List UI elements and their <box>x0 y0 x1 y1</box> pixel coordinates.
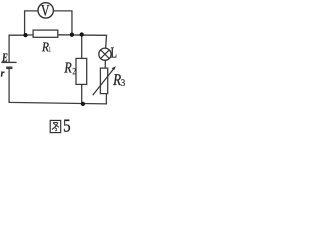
rheostat R3 label R <box>113 74 121 85</box>
lamp cross stroke 2 <box>101 50 110 59</box>
resistor R2 <box>76 58 87 84</box>
resistor R1 label subscript 1 <box>49 47 50 52</box>
junction node C <box>80 32 84 36</box>
battery label E <box>2 53 7 61</box>
wire R1 right along rail to top-right corner, down to lamp top <box>58 35 107 48</box>
battery label r <box>1 72 5 77</box>
rheostat R3 label subscript 3 <box>121 79 125 86</box>
wire battery bottom, bottom rail, up to R3 bottom <box>9 69 106 104</box>
voltmeter circle <box>38 3 53 18</box>
junction node A <box>23 33 27 37</box>
wire R2 bottom down to node D <box>81 84 83 103</box>
lamp cross stroke 1 <box>101 50 110 59</box>
wire node A to R1 left <box>26 34 34 36</box>
lamp label L <box>111 47 116 57</box>
junction node B <box>70 33 74 37</box>
caption character tu (figure) <box>50 120 61 132</box>
resistor R1 <box>33 30 58 37</box>
wire lamp bottom to R3 top <box>104 60 106 68</box>
voltmeter letter V <box>41 5 49 16</box>
wire top-left rail and left vertical down to node A <box>25 11 38 35</box>
battery short plate <box>6 67 12 70</box>
wire node A left then down to battery top <box>9 35 25 62</box>
resistor R2 label subscript 2 <box>73 68 76 74</box>
caption number 5 <box>64 120 70 132</box>
rheostat R3 arrow shaft <box>93 69 114 95</box>
battery long plate <box>1 61 16 63</box>
wire node C down to R2 top <box>81 35 83 59</box>
rheostat R3 box <box>100 68 107 94</box>
wire voltmeter right to corner, down to node B <box>53 11 72 35</box>
junction node D <box>81 102 85 106</box>
resistor R1 label R <box>42 43 49 52</box>
rheostat R3 arrow head <box>112 66 116 70</box>
lamp circle <box>99 48 111 60</box>
resistor R2 label R <box>64 62 71 72</box>
